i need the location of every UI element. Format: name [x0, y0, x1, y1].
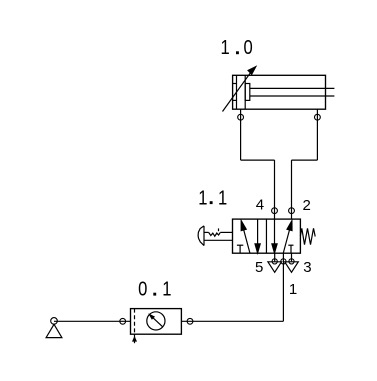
svg-text:2: 2	[303, 197, 311, 214]
svg-text:3: 3	[303, 259, 311, 276]
svg-text:1: 1	[221, 36, 230, 59]
svg-text:5: 5	[255, 259, 263, 276]
svg-text:1: 1	[218, 186, 227, 209]
svg-text:0: 0	[244, 36, 253, 59]
svg-text:4: 4	[256, 197, 264, 214]
svg-text:1: 1	[198, 186, 207, 209]
svg-text:1: 1	[289, 281, 297, 298]
svg-text:1: 1	[162, 277, 171, 300]
svg-text:0: 0	[138, 277, 147, 300]
